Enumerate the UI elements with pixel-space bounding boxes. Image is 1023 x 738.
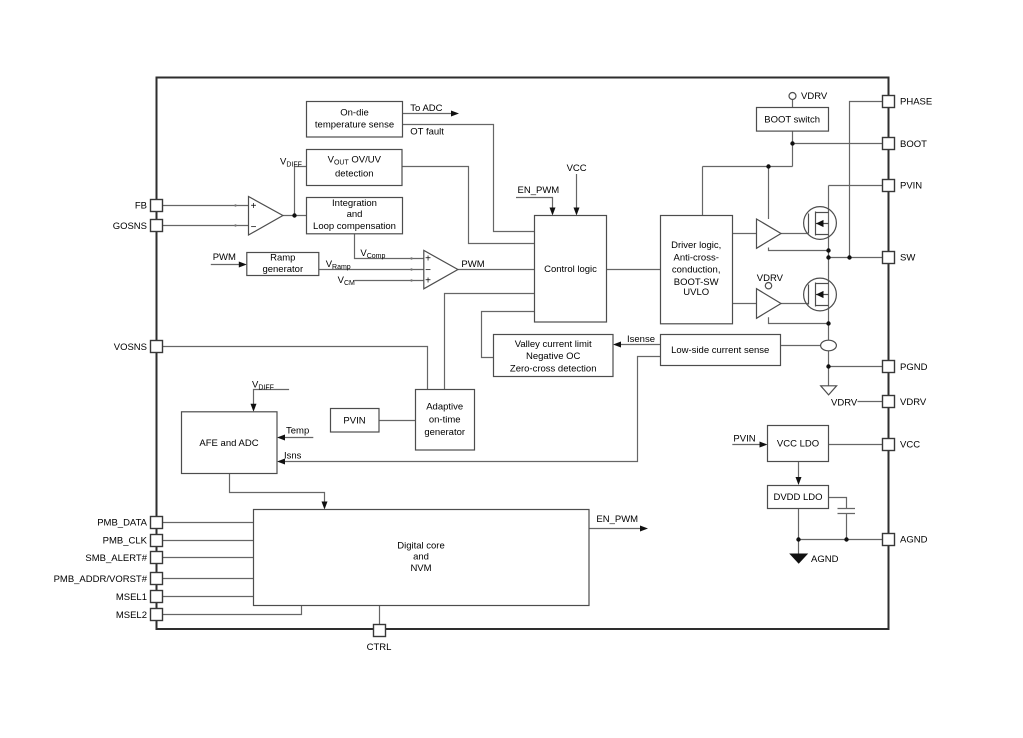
svg-text:PVIN: PVIN [900, 181, 922, 192]
svg-text:Integration: Integration [332, 198, 377, 209]
svg-text:VDRV: VDRV [757, 273, 784, 284]
svg-text:Control logic: Control logic [544, 264, 597, 275]
svg-text:Driver logic,: Driver logic, [671, 240, 721, 251]
svg-text:VDRV: VDRV [801, 91, 828, 102]
svg-text:+: + [425, 275, 431, 286]
svg-text:PMB_ADDR/VORST#: PMB_ADDR/VORST# [54, 574, 148, 585]
svg-text:PWM: PWM [213, 252, 236, 263]
svg-text:PGND: PGND [900, 362, 928, 373]
svg-text:temperature sense: temperature sense [315, 120, 394, 131]
svg-text:NVM: NVM [410, 563, 431, 574]
svg-text:SW: SW [900, 253, 915, 264]
svg-text:Valley current limit: Valley current limit [515, 339, 592, 350]
svg-text:VOSNS: VOSNS [114, 342, 147, 353]
svg-text:PVIN: PVIN [343, 415, 365, 426]
svg-text:Digital core: Digital core [397, 541, 445, 552]
svg-text:GOSNS: GOSNS [113, 221, 147, 232]
svg-text:CTRL: CTRL [367, 642, 392, 653]
svg-text:AFE and ADC: AFE and ADC [199, 438, 258, 449]
svg-text:BOOT switch: BOOT switch [764, 114, 820, 125]
svg-text:VDRV: VDRV [831, 397, 858, 408]
svg-text:Low-side current sense: Low-side current sense [671, 345, 769, 356]
svg-text:generator: generator [424, 427, 465, 438]
svg-text:−: − [251, 222, 257, 233]
svg-text:and: and [347, 209, 363, 220]
svg-text:VCC: VCC [900, 440, 920, 451]
svg-text:PMB_CLK: PMB_CLK [103, 536, 148, 547]
svg-text:Temp: Temp [286, 426, 309, 437]
svg-text:To ADC: To ADC [410, 103, 442, 114]
svg-text:Adaptive: Adaptive [426, 402, 463, 413]
svg-text:Isense: Isense [627, 334, 655, 345]
svg-text:SMB_ALERT#: SMB_ALERT# [85, 553, 147, 564]
svg-text:Anti-cross-: Anti-cross- [673, 252, 718, 263]
svg-text:AGND: AGND [900, 535, 928, 546]
svg-text:generator: generator [262, 264, 303, 275]
svg-text:+: + [251, 201, 257, 212]
svg-text:MSEL1: MSEL1 [116, 592, 147, 603]
svg-text:UVLO: UVLO [683, 287, 709, 298]
svg-text:OT fault: OT fault [410, 126, 444, 137]
svg-text:and: and [413, 551, 429, 562]
svg-text:EN_PWM: EN_PWM [518, 185, 560, 196]
svg-text:on-time: on-time [429, 415, 461, 426]
svg-text:AGND: AGND [811, 554, 839, 565]
svg-text:Loop compensation: Loop compensation [313, 221, 396, 232]
svg-text:DVDD LDO: DVDD LDO [773, 492, 822, 503]
svg-text:detection: detection [335, 169, 374, 180]
svg-text:VCC LDO: VCC LDO [777, 439, 819, 450]
svg-text:On-die: On-die [340, 108, 369, 119]
svg-text:FB: FB [135, 201, 147, 212]
svg-text:conduction,: conduction, [672, 265, 721, 276]
svg-text:PHASE: PHASE [900, 97, 932, 108]
svg-text:BOOT: BOOT [900, 139, 927, 150]
svg-text:PWM: PWM [461, 259, 484, 270]
svg-text:Zero-cross detection: Zero-cross detection [510, 363, 597, 374]
svg-text:PVIN: PVIN [733, 434, 755, 445]
svg-text:Negative OC: Negative OC [526, 351, 581, 362]
svg-text:PMB_DATA: PMB_DATA [97, 518, 147, 529]
svg-text:MSEL2: MSEL2 [116, 610, 147, 621]
svg-text:Ramp: Ramp [270, 253, 295, 264]
svg-text:VCC: VCC [567, 163, 587, 174]
svg-text:+: + [425, 254, 431, 265]
svg-text:VDRV: VDRV [900, 397, 927, 408]
svg-text:Isns: Isns [284, 451, 302, 462]
svg-text:EN_PWM: EN_PWM [596, 514, 638, 525]
